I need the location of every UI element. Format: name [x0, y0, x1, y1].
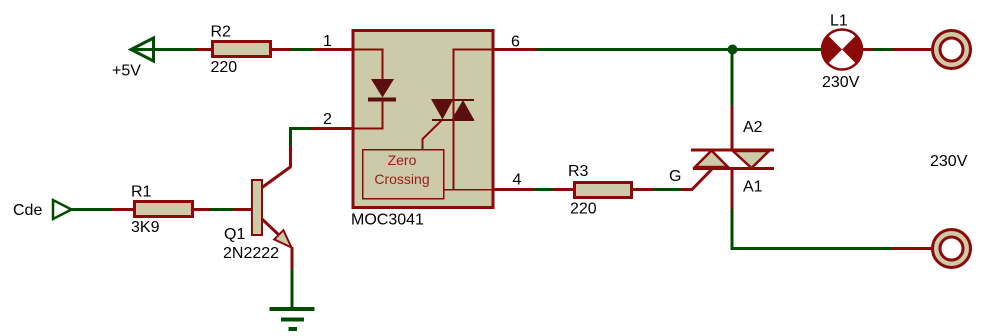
svg-text:+5V: +5V	[112, 63, 141, 80]
lamp L1	[822, 13, 862, 92]
resistor R1	[131, 184, 193, 237]
terminal top	[933, 31, 971, 69]
svg-text:Zero: Zero	[388, 152, 417, 168]
wire +5V to R2 left pin	[131, 48, 212, 51]
svg-text:Cde: Cde	[13, 202, 42, 219]
internal gate wire	[423, 120, 443, 149]
wire junction to triac A2	[731, 50, 734, 150]
svg-text:Crossing: Crossing	[374, 171, 429, 187]
resistor R3	[568, 163, 632, 218]
wire R1 to Q1 base	[193, 208, 252, 211]
wire Q1 emitter to ground	[291, 247, 294, 309]
junction node	[728, 45, 738, 55]
input terminal Cde	[13, 200, 72, 219]
wire R3 to triac gate	[630, 169, 712, 190]
wire lamp to top terminal	[863, 48, 931, 51]
svg-text:220: 220	[570, 201, 597, 218]
svg-text:4: 4	[513, 172, 522, 189]
triac U2	[691, 119, 774, 196]
optocoupler U1 MOC3041 body	[351, 31, 493, 229]
svg-text:1: 1	[323, 33, 332, 50]
svg-text:2N2222: 2N2222	[223, 245, 279, 262]
wire IC pin 4 to R3	[494, 188, 574, 191]
internal photo-triac	[431, 50, 493, 190]
zero crossing block	[363, 150, 444, 199]
svg-text:G: G	[669, 168, 681, 185]
power +5V	[112, 38, 196, 80]
wire triac A1 to bottom terminal	[732, 170, 931, 249]
wire R2 to IC pin 1	[271, 48, 352, 51]
terminal bottom	[933, 230, 971, 268]
svg-text:R3: R3	[568, 163, 589, 180]
wire IC pin 6 to lamp	[494, 48, 821, 51]
svg-text:230V: 230V	[822, 74, 860, 91]
svg-text:L1: L1	[830, 13, 848, 30]
wire IC pin 2 to Q1 collector	[291, 129, 353, 168]
svg-text:2: 2	[323, 111, 332, 128]
svg-text:3K9: 3K9	[131, 219, 160, 236]
svg-text:A2: A2	[743, 119, 763, 136]
svg-text:MOC3041: MOC3041	[351, 212, 424, 229]
svg-text:230V: 230V	[930, 153, 968, 170]
svg-text:Q1: Q1	[224, 226, 245, 243]
internal pin 4 wire	[443, 189, 493, 191]
svg-text:6: 6	[511, 34, 520, 51]
svg-text:220: 220	[211, 59, 238, 76]
wire Cde to R1	[71, 208, 134, 211]
svg-text:R1: R1	[131, 184, 152, 201]
resistor R2	[211, 24, 271, 77]
ground	[270, 309, 315, 329]
transistor Q1	[223, 167, 292, 263]
svg-text:R2: R2	[211, 24, 232, 41]
internal LED D1	[353, 50, 396, 129]
svg-text:A1: A1	[743, 179, 763, 196]
